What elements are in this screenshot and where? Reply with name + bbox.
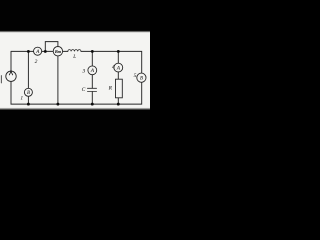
svg-text:В: В (140, 77, 143, 82)
svg-text:A: A (116, 66, 121, 72)
svg-text:4: 4 (112, 63, 115, 70)
svg-text:Вт: Вт (54, 49, 62, 54)
svg-text:L: L (72, 55, 76, 60)
svg-text:R: R (108, 86, 113, 92)
svg-text:2: 2 (35, 59, 38, 65)
svg-text:В: В (27, 91, 30, 96)
svg-text:A: A (35, 49, 40, 55)
svg-text:3: 3 (81, 68, 85, 74)
svg-text:1: 1 (20, 96, 23, 102)
svg-text:A: A (90, 68, 95, 74)
svg-text:C: C (82, 87, 86, 93)
svg-text:5: 5 (134, 73, 137, 79)
